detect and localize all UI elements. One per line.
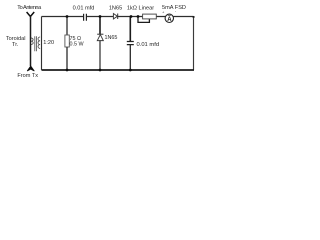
svg-text:A: A — [167, 17, 172, 23]
svg-text:1N65: 1N65 — [109, 5, 122, 11]
svg-text:5mA FSD: 5mA FSD — [162, 5, 186, 11]
svg-text:0.5 W: 0.5 W — [70, 42, 85, 48]
svg-text:1N65: 1N65 — [105, 35, 118, 41]
svg-text:1kΩ Linear: 1kΩ Linear — [127, 5, 154, 11]
svg-text:0.01 mfd: 0.01 mfd — [137, 42, 160, 48]
svg-text:To Antenna: To Antenna — [17, 5, 42, 11]
svg-text:1:20: 1:20 — [43, 40, 54, 46]
svg-text:From Tx: From Tx — [17, 73, 38, 79]
svg-text:Tr.: Tr. — [12, 42, 19, 48]
svg-text:0.01 mfd: 0.01 mfd — [73, 6, 95, 12]
